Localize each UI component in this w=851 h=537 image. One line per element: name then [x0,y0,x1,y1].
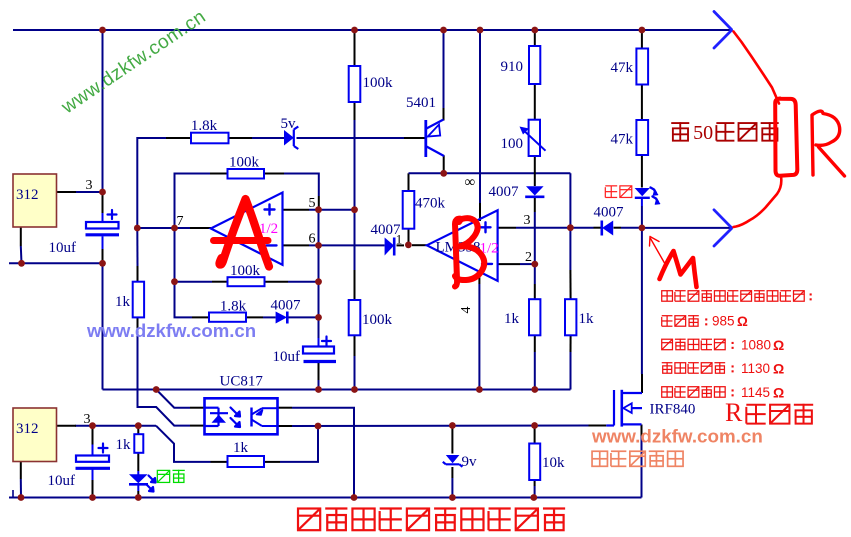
wire cap C2 leads x=318.5 (plus sign side) [318,338,320,347]
wire pin3 row to diode D4007c [570,227,593,229]
svg-text:50: 50 [693,122,713,144]
svg-text:4007: 4007 [489,184,520,200]
wire 100k-A-top feedback row y=173.5 [175,174,211,229]
junction dot Q1 collector row [440,170,447,177]
wire 910 bottom to pot 100 [534,84,536,120]
red handwritten resistor R box [775,99,797,176]
svg-text:985: 985 [712,314,735,329]
svg-text:1.8k: 1.8k [191,118,218,134]
svg-text:4: 4 [459,307,474,314]
wire left end hook of bottom rail [12,490,14,498]
resistor R-1.8k top [191,133,229,144]
wire Q1 emitter to top rail x=443.5 [443,30,445,108]
red handwritten letter A over op-amp A [219,199,269,267]
resistor R-1k-b [565,299,576,335]
wire green LED branch x=138.3 [137,426,139,435]
potentiometer RP-100 with wiper arrow [529,120,540,156]
svg-text:IRF840: IRF840 [650,402,696,418]
svg-text:∞: ∞ [465,175,476,191]
optocoupler U4 UC817 box [205,398,278,434]
diode D4007a (op-amp A pin6 to op-amp B) [385,238,394,256]
junction dots reg1 bottom wire [18,260,25,267]
wire regulator1 gnd lead x=21 [20,227,22,246]
resistor R-910 [529,46,540,84]
svg-text:1145: 1145 [741,385,770,400]
junction dots bottom ground rail [18,494,25,501]
optocoupler coupling arrows [231,408,241,417]
resistor R-10k [529,444,540,481]
svg-text:5401: 5401 [406,95,436,111]
wire rail x=318.5 pin5 junction down through rows to cap C2 [318,210,320,338]
svg-text:9v: 9v [462,454,478,470]
wire regulator1 pin3 lead [57,191,77,193]
svg-text:10k: 10k [542,455,565,471]
svg-text:www.dzkfw.com.cn: www.dzkfw.com.cn [86,320,256,341]
zener diode D-5v [284,130,294,146]
svg-text:10uf: 10uf [273,349,301,365]
svg-text:Ω: Ω [737,314,748,329]
wire regulator2 gnd lead [20,462,22,480]
wire Q1 collector to 470k-top row junction [443,155,445,173]
wire from bottom-mid-rail junction diagonal to opto pin1 [156,390,190,408]
svg-text:R: R [725,398,743,427]
diode D4007c (pin3 row) pointing left [602,221,613,236]
wire LED junction to right connector arrow [642,227,732,229]
svg-text:3: 3 [86,178,93,193]
wire diode D4007a to junction and op-amp B tip [397,244,405,246]
svg-text:47k: 47k [611,60,634,76]
wire 1.8k row y=138 from corner x=137.3 [137,138,166,228]
resistor R-1k opto loop [228,456,265,467]
svg-text:2: 2 [525,250,532,265]
svg-text:1: 1 [396,232,403,247]
MOSFET Q2 IRF840 [613,390,615,426]
svg-text:100: 100 [501,136,524,152]
zener diode D-9v pointing down [446,455,460,463]
wire pot 100 bottom to diode D4007b (crosses y=173.3) [534,156,536,186]
wire rail x=534.8 top rail to 910 [534,30,536,46]
wire pin2 of op-amp B y=264.1 [498,263,520,265]
svg-text:1.8k: 1.8k [220,299,247,315]
resistor R-470k [403,191,415,229]
red note line4 焊接得当时：1130 [662,362,673,364]
svg-text:100k: 100k [229,155,260,171]
wire 10k branch x=534.6 [534,426,536,444]
junction dots on top rail [99,27,106,34]
op-amp U1A + input mark [265,205,275,215]
wire 47k chain from top rail x=641.9 [641,30,643,49]
red curve from top connector to R box [734,32,780,104]
LED green (绿色) pointing down with arrows [129,474,148,483]
junction dots bottom mid rail [153,386,160,393]
junction dot pin2 row [531,261,538,268]
svg-text:312: 312 [16,421,39,437]
wire left vertical rail x=102.5 from top rail to pin3 junction [102,30,104,192]
wire 1k-opto right end up to gate wire junction [264,461,280,463]
wire rail x=354.5: 100k-v1 bottom down through pin5 row to 100k-v2 [354,102,356,120]
wire bottom ground rail y=497.5 [9,497,642,499]
svg-text:10uf: 10uf [49,240,77,256]
wire MOSFET source to bottom rail [641,425,643,437]
wire LED red bottom to junction [641,199,643,206]
svg-text:1080: 1080 [741,338,771,353]
optocoupler phototransistor [250,408,252,427]
junction dot pin3 row at x=570.4 [567,224,574,231]
watermark orange line2 电子开发网 [592,451,607,466]
wire rail x=570.4 from corner y=173.3 down through pin3 junction to 1k-b [569,173,571,270]
svg-text:1130: 1130 [741,361,770,376]
resistor R-1k green-led branch [134,434,143,453]
svg-text:UC817: UC817 [220,374,264,390]
junction dots gate row [89,422,96,429]
resistor R-100k vertical lower (on rail x=354.5) [349,300,361,335]
red note line5 开始高烧时：1145 [662,387,673,397]
wire LED junction down to MOSFET drain [641,228,643,374]
transistor Q1 5401 (PNP) [424,120,427,157]
wire top power rail y=30 [13,29,732,31]
wire regulator2 pin3 lead [57,425,77,427]
regulator U3 7812 bottom yellow box [13,408,57,462]
diode D4007d (1.8k lower row) [276,312,287,324]
wire 9v zener branch x=452.4 [451,426,453,454]
wire rail x=354.5: 100k-v2 bottom to bottom mid rail [354,335,356,356]
junction dots pin5 row [315,206,322,213]
wire pin7 of op-amp A y=228 [137,227,190,229]
wire pin5 of op-amp A y=209.7 [283,209,310,211]
wire 1.8k lower row: R to diode D4007d [246,316,263,318]
svg-text:1k: 1k [115,294,131,310]
junction dot diode row y=317.4 [315,314,322,321]
resistor R-100k vertical top (on rail x=354.5) [349,66,361,102]
svg-text:4007: 4007 [271,298,302,314]
svg-text:100k: 100k [363,75,394,91]
op-amp U1B + input mark [481,222,491,232]
capacitor C1 10uf [86,222,119,229]
svg-text:910: 910 [501,59,524,75]
svg-text:1k: 1k [579,311,595,327]
op-amp U1A - input mark [267,244,277,246]
svg-text:www.dzkfw.com.cn: www.dzkfw.com.cn [591,426,763,447]
junction dot reg1 pin3 [99,189,106,196]
wire 1k-b bottom to bottom mid rail corner [570,335,572,352]
junction dots pin6 row [315,242,322,249]
svg-text:470k: 470k [415,196,446,212]
wire cap C3 leads x=92.5 [92,426,94,445]
regulator U2 7812 top yellow box [13,174,57,227]
svg-text:1k: 1k [116,437,132,453]
red handwritten letter B over op-amp B [455,219,461,287]
svg-text:312: 312 [16,187,39,203]
wire rail x=318.5 cap C2 bottom to bottom mid rail [318,363,320,380]
junction dot LED red branch [639,225,646,232]
svg-text:100k: 100k [230,263,261,279]
junction dots pin7 row [134,225,141,232]
wire 100k-A-bottom feedback row y=281.7 [175,281,213,283]
connector arrow top (to iron) [714,12,732,49]
resistor R-100k op-amp A lower feedback [228,277,265,286]
wire 1k-a from pin2 junction down to bottom mid rail [534,264,536,284]
wire 470k bottom lead to pin1 junction [408,229,410,245]
svg-text:1k: 1k [233,440,249,456]
capacitor C2 10uf near op-amp B [303,347,334,354]
op-amp U1A triangle [211,193,283,265]
wire diode D4007c to LED junction [614,227,622,229]
label 绿色 (green) for LED [157,470,169,482]
svg-text:4007: 4007 [594,205,625,221]
wire rail x=354.5: top rail to 100k-v1 [354,30,356,66]
red curve from R box to bottom connector [734,177,782,228]
wire diode D4007d to rail x=318.5 [289,316,319,318]
wire from pin3 row diagonal down to 1k-opto loop [156,426,211,462]
wire opto pin3 (bottom right) to MOSFET gate [278,425,293,427]
wire opto pin4 (top right) to bottom rail via corner x=354 [278,407,293,409]
red handwritten letter R [812,111,840,175]
wire op-amp B pin4 from bottom edge to bottom mid rail [478,274,480,285]
wire rail x=174.5 down to 1.8k lower row corner [174,228,176,282]
svg-text:Ω: Ω [773,385,784,401]
svg-text:100k: 100k [362,312,393,328]
wire pin6 of op-amp A y=245.4 [283,244,310,246]
wire cap C1 leads on rail x=102.5 [102,192,104,213]
wire rail x=137.5 pin7 junction down to R 1k top [136,228,138,266]
svg-text:5: 5 [309,196,316,211]
optocoupler internal LED [205,407,219,409]
resistor R-1k on rail x=137.5 [133,282,144,318]
svg-text:6: 6 [309,232,316,247]
red note line1 用一把新烙铁测试阻值如下： [662,291,673,301]
svg-text:47k: 47k [611,132,634,148]
connector arrow bottom (to iron) [714,210,732,246]
label 接50瓦烙铁 (connect 50W iron) [671,122,689,124]
op-amp U1B - input mark [482,263,492,265]
op-amp U1B triangle [427,210,498,280]
svg-text:3: 3 [524,213,531,228]
resistor R-100k op-amp A top feedback [228,169,265,179]
diode D4007b (pot to pin2) pointing down [526,186,544,195]
svg-text:Ω: Ω [773,361,784,377]
svg-text:1k: 1k [504,311,520,327]
svg-text:5v: 5v [281,116,297,132]
wire bottom of regulator1 y=263.3 [9,262,103,264]
junction dots feedback row y=281.7 [171,278,178,285]
resistor R-47k lower [636,120,648,155]
resistor R-47k upper [636,49,648,85]
capacitor C4 10uf bottom [76,456,109,462]
wire bottom mid rail y=389.5 [103,389,571,391]
wire rail x=137.5 R1k bottom down to opto corner, then diagonal to opto pin2 [137,317,139,330]
wire 470k top lead and row y=173.3 to corner x=570.4 [408,173,410,191]
resistor R-1k-a [529,299,540,335]
red handwritten M squiggle [660,251,697,287]
wire rail x=480 top rail to op-amp B pin8 [479,30,481,203]
red note line3 刚能熔锡时：1080 [662,339,673,349]
wire 5v zener to Q1 base [297,137,405,139]
svg-text:Ω: Ω [773,337,784,353]
wire pin3 of op-amp B y=227.7 to rail x=570.4 [498,227,516,229]
resistor R-1.8k lower [209,313,246,322]
wire x=102.5 from cap C1 bottom junction down to bottom mid rail [102,263,104,389]
wire regulator2 pin3 row y=425.7 [75,425,156,427]
red title 可调恒温电烙铁电路图 [298,509,320,531]
svg-text:10uf: 10uf [48,473,76,489]
red annotation arrow pointing at junction [650,237,665,264]
wire diode D4007b bottom to pin2 junction (crosses pin3 wire) [534,198,536,212]
label 红色 (red) for LED [605,185,617,187]
LED red (红色) pointing down with arrows [635,188,650,196]
wire 1.8k row right of R to 5v zener [229,137,253,139]
red note line2 室温时：985 [662,315,673,317]
